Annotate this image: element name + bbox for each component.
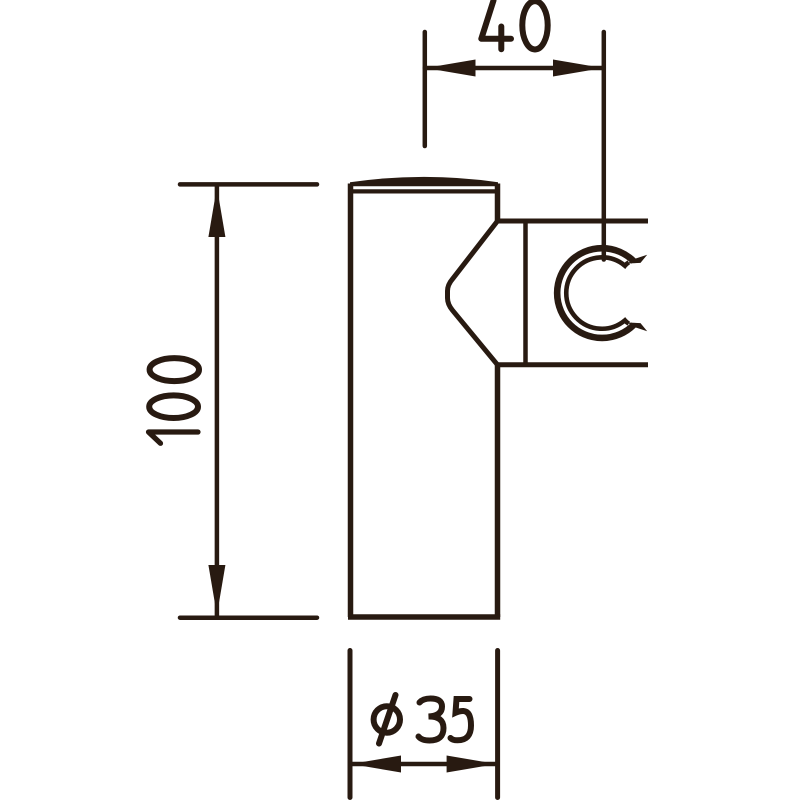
arm top line bbox=[498, 219, 649, 224]
dim100 text digit 0 top rotated bbox=[150, 358, 199, 381]
dim35 dimension line bbox=[350, 762, 498, 767]
dim40 left extension line bbox=[423, 32, 428, 146]
arm bottom line bbox=[498, 362, 649, 367]
clamp bottom hook bbox=[628, 323, 648, 332]
dim100 up arrowhead bbox=[208, 187, 225, 237]
dim35 left extension line bbox=[348, 651, 353, 798]
dim35 text digit 3 bbox=[419, 699, 444, 741]
dim35 text diameter symbol bbox=[374, 706, 400, 732]
dim40 dimension line bbox=[425, 66, 604, 71]
dim100 down arrowhead bbox=[208, 565, 225, 615]
dim100 top extension line bbox=[180, 182, 317, 187]
arm chevron outline bbox=[448, 221, 498, 365]
dim35 right arrowhead bbox=[447, 756, 497, 773]
clamp inner arc bbox=[566, 257, 629, 328]
arm divider line bbox=[523, 221, 528, 365]
dim100 text digit 0 middle rotated bbox=[149, 395, 198, 418]
clamp top hook bbox=[628, 255, 648, 264]
body cylinder dome cap fill bbox=[350, 177, 498, 186]
dim35 right extension line bbox=[495, 651, 500, 798]
dim40 right arrowhead bbox=[553, 60, 603, 77]
body cylinder right edge lower bbox=[495, 365, 501, 617]
dim40 text digit 0 bbox=[522, 1, 547, 49]
body cylinder bottom line bbox=[348, 614, 500, 620]
dim35 text digit 5 bbox=[451, 699, 472, 740]
dim100 text digit 1 rotated bbox=[149, 432, 199, 443]
body cylinder left edge bbox=[348, 184, 354, 618]
dim35 text diameter slash bbox=[379, 695, 396, 744]
clamp outer arc bbox=[557, 248, 634, 338]
dim100 bottom extension line bbox=[180, 615, 317, 620]
body cylinder right edge upper bbox=[495, 184, 501, 222]
dim35 left arrowhead bbox=[351, 756, 401, 773]
dim40 left arrowhead bbox=[426, 60, 476, 77]
dim100 dimension line bbox=[215, 187, 220, 616]
dim40 right extension line bbox=[602, 32, 607, 260]
body cylinder cap line bbox=[349, 189, 499, 193]
dim40 text digit 4 bbox=[481, 1, 511, 50]
